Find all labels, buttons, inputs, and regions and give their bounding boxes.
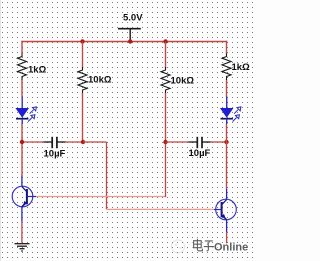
node junction C2 / right 10k / base wire (163, 140, 167, 144)
capacitor C2 10uF (166, 137, 227, 159)
wire left branch upper (21, 41, 23, 176)
svg-text:10µF: 10µF (44, 149, 66, 160)
node junction VCC on rail (128, 39, 132, 43)
resistor 10k ohm right with branch wire (161, 42, 194, 143)
LED1 left (16, 97, 36, 125)
resistor 1k ohm right (222, 54, 250, 81)
resistor 10k ohm left with branch wire (78, 42, 112, 143)
LED2 right (221, 97, 241, 125)
svg-text:10µF: 10µF (189, 148, 211, 159)
svg-text:5.0V: 5.0V (123, 13, 143, 24)
wire right branch upper (226, 41, 228, 189)
node junction C1 / left 10k / cross wire (81, 140, 85, 144)
node junction C2 / LED2 branch (224, 140, 228, 144)
wire Q1 base to right 10k node (right, up) (36, 142, 166, 197)
watermark logo circle (172, 240, 185, 253)
wire left branch at capacitor level (22, 141, 44, 143)
svg-text:1kΩ: 1kΩ (28, 65, 47, 76)
wire top rail (21, 41, 227, 43)
transistor Q2 (right, base on left) (214, 189, 236, 232)
wire Q2 emitter down (226, 232, 228, 245)
wire Q1 emitter to ground (21, 222, 23, 243)
power supply VCC 5.0V (118, 13, 143, 42)
svg-text:Online: Online (214, 242, 248, 254)
resistor 1k ohm left (18, 54, 47, 81)
wire C1 to left 10k node (66, 141, 84, 143)
node junction left 10k on rail (80, 39, 84, 43)
svg-text:10kΩ: 10kΩ (88, 75, 112, 86)
ground symbol (15, 244, 30, 251)
capacitor C1 10uF (44, 137, 66, 160)
node junction LED1/C1 (20, 140, 24, 144)
svg-text:10kΩ: 10kΩ (171, 76, 195, 87)
svg-text:1kΩ: 1kΩ (232, 62, 251, 73)
node junction right 10k on rail (163, 39, 167, 43)
transistor Q1 (left, base on right) (12, 176, 36, 222)
watermark text dianzi Online (194, 239, 249, 254)
wire from node C1-10k to Q2 base (right, down, right) (83, 142, 214, 209)
